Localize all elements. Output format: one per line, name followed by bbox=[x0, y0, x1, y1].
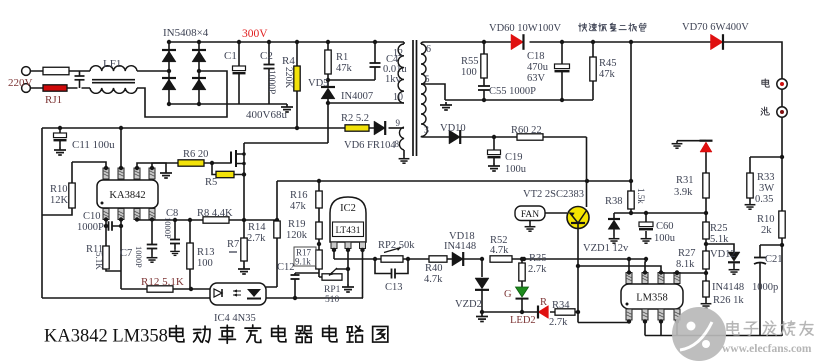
diode D1 bridge bbox=[162, 51, 176, 62]
wire gate R5 node bbox=[212, 163, 244, 175]
svg-text:3.9k: 3.9k bbox=[674, 187, 693, 198]
pin marker LM358 bbox=[626, 303, 629, 306]
svg-text:VD5: VD5 bbox=[308, 78, 328, 89]
wire 300V top rail bbox=[169, 41, 404, 43]
wire rail 213 bbox=[614, 212, 706, 214]
svg-text:47k: 47k bbox=[336, 63, 353, 74]
resistor RJ1 bbox=[43, 85, 67, 91]
svg-text:C60: C60 bbox=[656, 221, 674, 232]
pin pad KA3842 top 4 bbox=[149, 168, 155, 179]
wire bottom rail left bbox=[42, 297, 363, 299]
wire R38 chain bbox=[630, 42, 632, 213]
wire fan to VT2 bbox=[545, 212, 567, 214]
ic KA3842 box bbox=[97, 180, 158, 208]
svg-text:C12: C12 bbox=[277, 262, 295, 273]
label chi bbox=[761, 107, 769, 115]
transistor Q1 mosfet bbox=[230, 152, 232, 164]
ic IC2 LT431 body bbox=[330, 197, 366, 242]
svg-text:47k: 47k bbox=[290, 201, 307, 212]
diode VD5 bbox=[321, 88, 335, 99]
svg-text:R38: R38 bbox=[605, 196, 623, 207]
ground C7 bbox=[147, 255, 158, 262]
svg-text:IN5408×4: IN5408×4 bbox=[163, 27, 209, 39]
transformer secondary winding bbox=[421, 44, 427, 137]
svg-text:IN4148: IN4148 bbox=[712, 282, 744, 293]
svg-text:2.7k: 2.7k bbox=[549, 317, 568, 328]
pin pad LT431 1 bbox=[331, 242, 337, 249]
watermark logo circle bbox=[672, 307, 726, 361]
svg-text:LED2: LED2 bbox=[510, 315, 536, 326]
fan box bbox=[515, 206, 545, 221]
resistor R55 bbox=[483, 42, 485, 86]
wire AC top bbox=[31, 70, 91, 72]
resistor R5 bbox=[216, 171, 234, 177]
wire KA pin2 bottom bbox=[120, 220, 122, 290]
wire left rail bbox=[41, 128, 43, 298]
svg-text:C10: C10 bbox=[83, 211, 101, 222]
svg-text:220V: 220V bbox=[8, 77, 33, 89]
resistor R1 bbox=[327, 42, 329, 87]
pin pad LM358 top 4 bbox=[674, 273, 680, 284]
pin pad LM358 bottom 3 bbox=[658, 309, 664, 320]
pin pad KA3842 bottom 3 bbox=[134, 209, 140, 220]
wire pin8 ground bbox=[403, 150, 405, 156]
pin marker KA3842 bbox=[101, 202, 104, 205]
svg-text:9.1k: 9.1k bbox=[295, 257, 311, 267]
svg-text:VD60 10W100V: VD60 10W100V bbox=[489, 23, 561, 34]
wire KA pin3 bottom bbox=[136, 219, 138, 222]
optocoupler IC4 led bbox=[214, 289, 222, 297]
resistor R14 bbox=[274, 221, 280, 238]
wire bottom right rail bbox=[645, 322, 782, 336]
diode D4 bridge bbox=[192, 79, 206, 90]
inductor LF1 top winding bbox=[90, 66, 137, 71]
svg-text:1000P: 1000P bbox=[266, 70, 276, 94]
svg-text:1000P: 1000P bbox=[77, 222, 104, 233]
svg-text:VT2 2SC2383: VT2 2SC2383 bbox=[523, 189, 584, 200]
svg-text:R16: R16 bbox=[290, 190, 308, 201]
resistor R2 bbox=[345, 125, 369, 131]
svg-text:FAN: FAN bbox=[521, 210, 539, 220]
svg-text:C55 1000P: C55 1000P bbox=[489, 86, 536, 97]
node KA pads top dots bbox=[104, 166, 108, 170]
pin pad LT431 3 bbox=[360, 242, 366, 249]
wire to terminals bbox=[723, 42, 783, 79]
ground VD12 bbox=[729, 267, 740, 274]
wire KA pin5 gnd bbox=[152, 163, 166, 170]
svg-text:R12 5.1K: R12 5.1K bbox=[141, 276, 184, 288]
wire rail 273 bbox=[661, 272, 706, 274]
svg-text:C7: C7 bbox=[120, 248, 132, 259]
capacitor CX across line bbox=[79, 71, 81, 88]
wire R11 bottom bbox=[106, 269, 121, 271]
terminal battery plus bbox=[777, 79, 787, 89]
svg-text:LT431: LT431 bbox=[336, 226, 361, 236]
svg-text:R7: R7 bbox=[227, 239, 239, 250]
wire R1 C4 bottom link bbox=[328, 79, 375, 81]
wire VD12 gnd bbox=[733, 264, 735, 268]
wire VCC aux bbox=[42, 127, 374, 129]
ground VZD1 bbox=[609, 236, 620, 243]
diode D3 bridge bbox=[192, 51, 206, 62]
watermark text bbox=[727, 321, 739, 334]
svg-text:C1: C1 bbox=[224, 50, 237, 62]
svg-text:100u: 100u bbox=[654, 233, 676, 244]
svg-text:R45: R45 bbox=[599, 58, 617, 69]
ground C11 bbox=[54, 147, 66, 155]
svg-text:R14: R14 bbox=[248, 222, 266, 233]
svg-text:VD70 6W400V: VD70 6W400V bbox=[682, 22, 749, 33]
diode VD6 bbox=[374, 121, 385, 135]
svg-text:8: 8 bbox=[395, 139, 400, 149]
wire R16 chain bbox=[295, 181, 323, 277]
svg-text:1000P: 1000P bbox=[134, 246, 144, 268]
capacitor C60 bbox=[645, 213, 647, 236]
resistor R16 bbox=[316, 191, 322, 208]
svg-text:63V: 63V bbox=[527, 73, 546, 84]
svg-text:C13: C13 bbox=[385, 282, 403, 293]
svg-text:R31: R31 bbox=[676, 175, 694, 186]
pin pad KA3842 bottom 4 bbox=[149, 209, 155, 220]
svg-text:1000P: 1000P bbox=[163, 217, 173, 239]
resistor R4 bbox=[296, 42, 298, 128]
wire KA pin6 gate bbox=[137, 163, 231, 168]
resistor R19 bbox=[316, 222, 322, 239]
diode VD10 bbox=[449, 130, 460, 144]
svg-text:RP1: RP1 bbox=[324, 285, 341, 295]
ground R33 bbox=[745, 202, 756, 209]
ground RP1 bbox=[342, 284, 354, 292]
svg-text:400V68u: 400V68u bbox=[246, 109, 287, 121]
ground pin8 bbox=[399, 156, 410, 163]
resistor R13 bbox=[189, 220, 191, 289]
label dian bbox=[762, 79, 769, 87]
wire secondary top rail bbox=[421, 42, 711, 44]
resistor R10b bbox=[779, 211, 785, 238]
AC input terminal top bbox=[22, 67, 31, 76]
svg-text:5: 5 bbox=[425, 74, 430, 84]
node bridge junctions bbox=[167, 40, 171, 44]
svg-text:100: 100 bbox=[461, 67, 477, 78]
capacitor C8 bbox=[174, 220, 176, 249]
wire fan ground bbox=[529, 221, 531, 225]
svg-text:C2: C2 bbox=[260, 50, 273, 62]
wire AC2 route bbox=[137, 71, 227, 117]
wire bridge right branch bbox=[198, 42, 200, 104]
transformer primary winding bbox=[398, 44, 404, 103]
resistor R35 bbox=[521, 259, 523, 287]
svg-text:12K: 12K bbox=[50, 195, 69, 206]
wire led row bbox=[482, 311, 578, 313]
wire LT431 pin3 bbox=[362, 248, 365, 298]
resistor R31 bbox=[703, 173, 709, 198]
node R4 bottom bbox=[295, 126, 299, 130]
ground pin5 line bbox=[440, 102, 452, 110]
capacitor C2 bbox=[268, 42, 270, 104]
svg-text:R60 22: R60 22 bbox=[511, 125, 542, 136]
capacitor C19 bbox=[493, 137, 495, 163]
potentiometer RP1 bbox=[322, 274, 342, 280]
resistor R17 bbox=[316, 250, 322, 269]
capacitor C7 bbox=[147, 245, 158, 249]
capacitor C11 bbox=[59, 128, 61, 147]
wire VT2 collector bbox=[586, 137, 588, 207]
wire R10 bottom bbox=[42, 208, 72, 215]
svg-text:5.1K: 5.1K bbox=[94, 252, 104, 270]
fuse F1 bbox=[43, 67, 69, 75]
svg-text:R40: R40 bbox=[425, 263, 443, 274]
wire rail 266 bbox=[578, 266, 661, 273]
svg-text:IN4148: IN4148 bbox=[444, 241, 476, 252]
diode VZD1 bbox=[613, 213, 615, 218]
diode D2 bridge bbox=[162, 79, 176, 90]
wire bridge left branch bbox=[168, 42, 170, 104]
svg-text:8.1k: 8.1k bbox=[676, 259, 695, 270]
resistor R60 bbox=[517, 134, 543, 140]
optocoupler IC4 arrows bbox=[233, 291, 241, 295]
ground R26 bbox=[701, 301, 712, 308]
node KA pads bottom dots bbox=[104, 217, 108, 221]
optocoupler IC4 box bbox=[210, 283, 266, 305]
svg-text:510: 510 bbox=[325, 295, 340, 305]
capacitor C13 loop bbox=[375, 259, 408, 274]
svg-text:10: 10 bbox=[393, 92, 403, 103]
label R17 box bbox=[294, 247, 316, 266]
wire R12 left bbox=[121, 288, 147, 290]
svg-text:LF1: LF1 bbox=[103, 58, 121, 70]
svg-text:R8 4.4K: R8 4.4K bbox=[197, 208, 233, 219]
pin pad LT431 2 bbox=[345, 242, 351, 249]
svg-text:IC2: IC2 bbox=[340, 203, 356, 214]
svg-text:C18: C18 bbox=[527, 51, 545, 62]
wire pin3 out bbox=[421, 136, 587, 139]
svg-text:C21: C21 bbox=[765, 254, 783, 265]
pin pad KA3842 bottom 2 bbox=[118, 209, 124, 220]
resistor R8 bbox=[203, 217, 229, 223]
node VZD2 bottom bbox=[480, 310, 484, 314]
transistor VT2 bbox=[567, 207, 589, 229]
node fb dots bbox=[480, 257, 484, 261]
wire primary bottom rail bbox=[169, 103, 287, 105]
resistor R27 bbox=[703, 251, 709, 269]
svg-text:R35: R35 bbox=[529, 253, 547, 264]
resistor R45 bbox=[592, 42, 594, 100]
svg-text:1.5k: 1.5k bbox=[636, 188, 646, 204]
wire right rail bbox=[781, 117, 783, 336]
ground VZD2 bbox=[476, 314, 488, 322]
ground C60 bbox=[641, 236, 652, 243]
svg-text:3: 3 bbox=[424, 125, 429, 136]
resistor R11 bbox=[103, 246, 109, 269]
wire LT431 pin1 bbox=[333, 248, 335, 259]
diode VD12 bbox=[728, 252, 740, 261]
svg-text:R6 20: R6 20 bbox=[183, 149, 208, 160]
resistor R10 bbox=[69, 183, 75, 208]
pin pad KA3842 bottom 1 bbox=[103, 209, 109, 220]
resistor R40 bbox=[429, 256, 447, 262]
potentiometer RP2 bbox=[381, 256, 403, 262]
pin pad LM358 bottom 2 bbox=[642, 309, 648, 320]
svg-text:1000p: 1000p bbox=[752, 282, 778, 293]
svg-text:R1: R1 bbox=[336, 52, 348, 63]
svg-text:R5: R5 bbox=[205, 177, 217, 188]
svg-text:R2 5.2: R2 5.2 bbox=[341, 113, 369, 124]
capacitor C10 bbox=[106, 225, 121, 227]
svg-text:KA3842 LM358: KA3842 LM358 bbox=[44, 327, 168, 347]
wire VD6 to pin9 bbox=[389, 127, 405, 129]
wire KA pin1 bottom bbox=[105, 220, 107, 247]
resistor R7 bbox=[243, 220, 245, 266]
svg-text:300V: 300V bbox=[242, 28, 268, 40]
wire VT2 base down bbox=[578, 229, 629, 323]
transformer core bbox=[413, 40, 417, 156]
diode VZD2 bbox=[481, 259, 483, 277]
svg-text:6: 6 bbox=[426, 44, 431, 55]
led R red LED2 bbox=[538, 306, 548, 319]
ground C8 bbox=[170, 249, 180, 255]
ground VZD3 bbox=[672, 141, 683, 148]
svg-text:VZD2: VZD2 bbox=[455, 299, 482, 310]
pin pad LM358 top 1 bbox=[626, 273, 632, 284]
pin pad LM358 top 3 bbox=[658, 273, 664, 284]
wire R33 top bbox=[750, 157, 782, 173]
svg-text:220K: 220K bbox=[283, 67, 293, 88]
svg-text:IC4 4N35: IC4 4N35 bbox=[214, 313, 256, 324]
svg-text:www.elecfans.com: www.elecfans.com bbox=[722, 343, 812, 355]
wire fb main bbox=[334, 258, 646, 260]
svg-text:R33: R33 bbox=[757, 172, 775, 183]
wire KA pin7 VCC bbox=[120, 128, 122, 168]
svg-text:3W: 3W bbox=[759, 183, 774, 194]
optocoupler IC4 transistor bbox=[247, 289, 261, 297]
pin pad LM358 top 2 bbox=[642, 273, 648, 284]
svg-text:R34: R34 bbox=[552, 300, 570, 311]
wire LF1 to bridge bbox=[137, 70, 169, 72]
svg-text:G: G bbox=[504, 289, 512, 300]
wire source down bbox=[243, 164, 245, 221]
resistor R33 bbox=[747, 173, 753, 198]
svg-text:VZD1 12v: VZD1 12v bbox=[583, 243, 629, 254]
diode VZD3 red bbox=[705, 152, 707, 173]
wire LM358 bottom loop bbox=[645, 322, 661, 336]
resistor R52 bbox=[490, 256, 512, 262]
pin pad KA3842 top 2 bbox=[118, 168, 124, 179]
svg-text:RP2 50k: RP2 50k bbox=[378, 240, 415, 251]
wire pin5 tap bbox=[421, 84, 445, 100]
svg-text:R: R bbox=[540, 297, 547, 308]
svg-text:VD10: VD10 bbox=[440, 123, 466, 134]
svg-text:R27: R27 bbox=[678, 248, 696, 259]
svg-text:R19: R19 bbox=[288, 219, 306, 230]
svg-text:9: 9 bbox=[396, 118, 401, 128]
svg-text:R4: R4 bbox=[282, 55, 295, 67]
wire sec ground line bbox=[445, 99, 593, 101]
svg-text:120k: 120k bbox=[286, 230, 308, 241]
resistor R12 bbox=[147, 286, 173, 292]
svg-text:IN4007: IN4007 bbox=[341, 91, 373, 102]
svg-text:R55: R55 bbox=[461, 56, 479, 67]
AC input terminal bottom bbox=[22, 84, 31, 93]
pin pad LM358 bottom 1 bbox=[626, 309, 632, 320]
wire VD12 top bbox=[706, 244, 734, 252]
terminal battery minus bbox=[781, 89, 783, 107]
wire R12 right bbox=[173, 288, 210, 290]
wire KA pin1 R10 bbox=[72, 162, 106, 183]
svg-text:VD12: VD12 bbox=[710, 249, 736, 260]
inductor LF1 bottom winding bbox=[90, 88, 137, 93]
wire CS line bbox=[137, 219, 277, 221]
capacitor C4 bbox=[374, 42, 376, 80]
node top rail dots bbox=[237, 40, 241, 44]
ground FAN bbox=[525, 224, 536, 231]
resistor R26 bbox=[703, 281, 709, 297]
svg-text:2.7k: 2.7k bbox=[528, 264, 547, 275]
inductor LF1 core bbox=[92, 80, 135, 83]
svg-text:C11 100u: C11 100u bbox=[72, 139, 115, 151]
wire R14 chain bbox=[266, 181, 277, 287]
wire VZD3 gnd bbox=[677, 140, 706, 142]
svg-text:12: 12 bbox=[393, 48, 403, 59]
ground primary bbox=[281, 104, 293, 112]
diode VD70 bbox=[711, 34, 723, 50]
led G green bbox=[516, 287, 529, 297]
svg-text:R10: R10 bbox=[757, 214, 775, 225]
svg-text:R26 1k: R26 1k bbox=[713, 295, 744, 306]
diode VD60 bbox=[511, 34, 523, 50]
resistor R6 bbox=[178, 160, 204, 166]
wire rail 181 bbox=[277, 180, 631, 182]
transformer feedback winding bbox=[399, 127, 404, 150]
node LT431 pin dots bbox=[332, 248, 336, 252]
svg-text:100: 100 bbox=[197, 258, 213, 269]
svg-text:KA3842: KA3842 bbox=[109, 190, 145, 201]
svg-text:0.35: 0.35 bbox=[755, 194, 773, 205]
wire VD5 to pin10 bbox=[328, 98, 404, 103]
capacitor C18 bbox=[561, 42, 563, 100]
pin pad LM358 bottom 4 bbox=[674, 309, 680, 320]
ic LM358 box bbox=[621, 284, 683, 309]
node LM358 pad dots bbox=[627, 270, 631, 274]
wire drain bbox=[244, 103, 328, 143]
svg-text:LM358: LM358 bbox=[636, 293, 668, 304]
svg-text:47k: 47k bbox=[599, 69, 616, 80]
resistor R25 bbox=[703, 222, 709, 239]
svg-text:R25: R25 bbox=[710, 223, 728, 234]
resistor R34 bbox=[555, 309, 575, 315]
svg-text:R10: R10 bbox=[50, 184, 68, 195]
diode VD18 bbox=[452, 252, 463, 266]
svg-text:VD6 FR104: VD6 FR104 bbox=[344, 140, 396, 151]
capacitor C55 bbox=[478, 86, 490, 90]
resistor R38 bbox=[628, 191, 634, 209]
label LT431 box bbox=[333, 222, 364, 237]
pin pad KA3842 top 3 bbox=[134, 168, 140, 179]
capacitor C1 bbox=[238, 42, 240, 104]
capacitor C21 bbox=[760, 245, 782, 336]
pin pad KA3842 top 1 bbox=[103, 168, 109, 179]
ground R7 bbox=[238, 266, 250, 274]
wire LM358 pin drops bbox=[629, 259, 646, 273]
wire KA pin4 bottom C7 bbox=[151, 220, 153, 256]
svg-text:RJ1: RJ1 bbox=[45, 94, 62, 106]
wire AC bottom bbox=[31, 87, 91, 89]
svg-text:2k: 2k bbox=[761, 225, 772, 236]
ground KA pin5 bbox=[160, 170, 172, 178]
wire LT431 pin2 RP1 bbox=[336, 248, 348, 284]
svg-text:4.7k: 4.7k bbox=[424, 274, 443, 285]
svg-text:100u: 100u bbox=[505, 164, 527, 175]
svg-text:2.7k: 2.7k bbox=[247, 233, 266, 244]
